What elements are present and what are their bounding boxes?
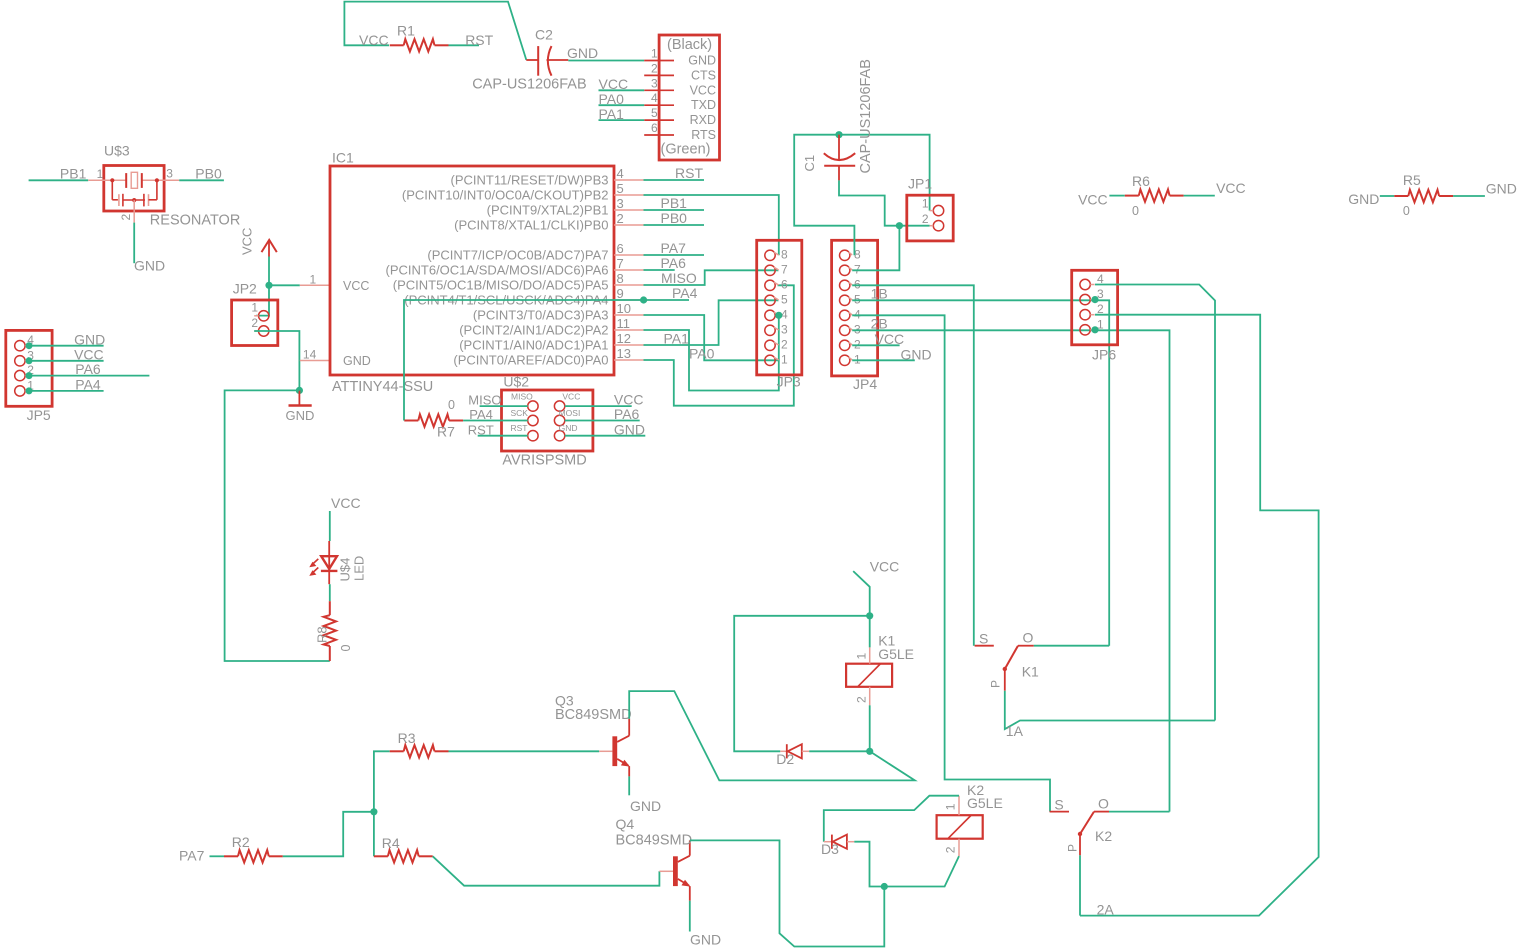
svg-text:2: 2 [854, 337, 861, 351]
label PA4 net (JP5) [75, 377, 101, 393]
label RST net [465, 32, 493, 48]
resistor R3 [390, 745, 449, 757]
internal pin label MISO U$2 [511, 392, 533, 402]
svg-text:GND: GND [567, 45, 598, 61]
svg-text:1: 1 [310, 273, 317, 287]
wire PA6 net stub [644, 269, 675, 271]
label GND net (resonator) [134, 258, 165, 274]
label JP5 [27, 407, 51, 423]
pin circle right 3 U$2 [554, 431, 564, 441]
wire junction to IC1 pin 1 [269, 284, 300, 286]
svg-text:BC849SMD: BC849SMD [616, 832, 693, 848]
svg-text:R5: R5 [1403, 172, 1421, 188]
capacitor C2 [526, 46, 568, 76]
pin stub right 3 U$2 [565, 435, 569, 437]
wire GND net stub (JP4 pin1) [852, 359, 915, 361]
svg-text:JP1: JP1 [908, 176, 932, 192]
pin number 2 JP2 [251, 316, 258, 330]
pin stub 2 JP4 [849, 342, 853, 345]
label VCC (left of R6) [1078, 191, 1108, 207]
svg-text:VCC: VCC [359, 32, 389, 48]
pin 4 of IC1 [614, 179, 644, 181]
pin number 3 IC1 [617, 196, 624, 211]
svg-text:2A: 2A [1097, 902, 1115, 918]
pin stub 2 JP3 [774, 342, 779, 345]
svg-text:RXD: RXD [690, 113, 716, 127]
pin 14 of IC1 [300, 360, 330, 362]
switch K1 S terminal [975, 645, 994, 647]
svg-text:R8: R8 [315, 626, 330, 643]
svg-text:2: 2 [922, 212, 929, 226]
pin 1 line of U$3 [88, 179, 126, 181]
label 1B net [871, 285, 888, 301]
pin number 1 JP4 [854, 352, 861, 366]
junction VCC/JP2/IC1 pin1 [265, 282, 272, 289]
label K2 (coil) [967, 782, 984, 798]
pin 9 of IC1 [614, 299, 644, 301]
pin number 7 JP4 [854, 262, 861, 276]
pin number 1 JP5 [27, 378, 34, 392]
wire K1 O to JP6 pin3 net [1034, 645, 1109, 647]
pin number 1 JP2 [251, 300, 258, 314]
wire IC1 pin5 to JP3 pin8 [644, 195, 779, 255]
internal pin label SCK U$2 [511, 408, 529, 418]
label PB1 net [60, 165, 87, 181]
junction JP5 pin2 [26, 372, 33, 379]
resonator U$3 outline [104, 166, 164, 212]
wire Q4 collector to D3/K2 junction [690, 840, 885, 946]
label GND (right of R5) [1486, 180, 1517, 196]
pin number 5 X1 [651, 106, 658, 120]
resistor R1 [390, 39, 449, 51]
wire PA7 net stub [644, 254, 705, 256]
pin stub left 2 U$2 [524, 420, 528, 422]
svg-text:RST: RST [511, 423, 528, 433]
pin number 11 IC1 [617, 316, 631, 331]
label S (K2) [1054, 797, 1063, 813]
pin circle 4 JP4 [840, 310, 850, 320]
svg-text:1: 1 [855, 653, 869, 660]
junction R2/R3/R4 [370, 808, 377, 815]
svg-text:VCC: VCC [690, 83, 716, 97]
pin stub 3 JP3 [774, 327, 779, 330]
wire JP4 pin7 to C1 junction [852, 226, 899, 271]
power symbol VCC arrow [262, 240, 277, 257]
pin name VCC X1 [690, 83, 716, 97]
pin number 1 K1 [855, 653, 869, 660]
label PA6 net (IC1) [661, 255, 687, 271]
svg-text:GND: GND [286, 408, 315, 423]
wire VCC right of R6 [1184, 195, 1215, 197]
label D2 [776, 751, 794, 767]
pin stub 6 JP4 [849, 282, 853, 285]
connector JP2 outline [232, 300, 278, 346]
label BC849SMD (Q3) [555, 707, 632, 723]
pin 5 of X1 [644, 119, 674, 121]
wire PA7 to R2 [210, 855, 225, 857]
svg-text:0: 0 [339, 645, 353, 652]
svg-text:K2: K2 [1095, 828, 1112, 844]
junction VCC/K1 [866, 612, 873, 619]
switch K1 P terminal [1004, 669, 1006, 691]
label CAP-US1206FAB (C1) [858, 59, 874, 173]
pin stub 3 JP6 [1090, 299, 1094, 301]
pin stub left 1 U$2 [524, 405, 528, 407]
svg-text:8: 8 [617, 271, 624, 286]
svg-text:3: 3 [166, 167, 173, 181]
pin circle 7 JP3 [765, 265, 775, 275]
wire PA4/R7 from IC1 pin9 [404, 300, 644, 421]
wire JP2 pin2 to GND junction [254, 331, 299, 390]
pin number 2 JP3 [781, 337, 788, 351]
wire VCC net stub (JP4 pin2) [852, 344, 899, 346]
value 0 (R5) [1403, 204, 1410, 218]
pin number 10 IC1 [617, 301, 631, 316]
wire GND right of R5 [1453, 195, 1485, 197]
resistor R6 [1125, 189, 1184, 201]
svg-text:GND: GND [688, 54, 716, 68]
pin circle 3 JP4 [840, 325, 850, 335]
label ATTINY44-SSU [332, 379, 433, 395]
pin name (PCINT1/AIN0/ADC1)PA1 [459, 338, 608, 353]
internal pin label MOSI U$2 [559, 408, 581, 418]
label RST (U$2) [468, 422, 494, 437]
junction C1 top [835, 131, 842, 138]
junction JP3 pin4 [775, 312, 782, 319]
wire VCC net from R1 to C2 (top loop) [344, 2, 526, 60]
wire MISO from IC1 pin8 to JP3 pin7 [644, 270, 779, 285]
svg-text:PB0: PB0 [195, 165, 222, 181]
wire VCC from U$2 [565, 405, 632, 407]
wire LED to R8 [329, 584, 331, 601]
svg-text:R2: R2 [232, 834, 250, 850]
svg-text:(PCINT9/XTAL2)PB1: (PCINT9/XTAL2)PB1 [487, 203, 609, 218]
label U$2 [503, 374, 529, 390]
pin name GND X1 [688, 54, 716, 68]
pin circle 5 JP3 [765, 295, 775, 305]
connector JP5 outline [6, 330, 52, 406]
crystal plates U$3 [126, 172, 142, 188]
pin circle 8 JP4 [840, 250, 850, 260]
svg-text:VCC: VCC [1216, 180, 1246, 196]
pin number 6 JP4 [854, 277, 861, 291]
wire PB0 net stub [644, 224, 705, 226]
svg-text:JP5: JP5 [27, 407, 51, 423]
pin stub 1 JP6 [1090, 329, 1094, 331]
label VCC net (JP5) [74, 346, 104, 362]
wire PB1 to resonator pin1 [29, 179, 89, 181]
svg-text:VCC: VCC [562, 392, 580, 402]
label PA1 net (IC1) [664, 331, 690, 347]
label JP6 [1092, 347, 1116, 363]
junction IC1 pin9 [640, 296, 647, 303]
junction C1 bottom / JP4 pin7 [896, 222, 903, 229]
label VCC (U$2) [614, 392, 644, 408]
svg-text:1: 1 [781, 352, 788, 366]
label GND net (JP5) [74, 331, 105, 347]
pin 1 of K1 [869, 647, 871, 663]
label VCC (LED) [331, 495, 361, 511]
svg-text:VCC: VCC [331, 495, 361, 511]
label Q3 [555, 693, 574, 709]
transistor Q4 [659, 840, 690, 900]
wire PA6 from JP5 pin2 [29, 375, 149, 377]
svg-text:GND: GND [134, 258, 165, 274]
label GND net (C2 to X1) [567, 45, 598, 61]
pin 5 of IC1 [614, 194, 644, 196]
wire VCC to K1 coil [853, 571, 870, 616]
pin stub 4 JP5 [25, 345, 29, 347]
label JP2 [233, 281, 257, 297]
label AVRISPSMD [502, 453, 586, 469]
relay coil K2 [937, 815, 983, 839]
svg-text:CAP-US1206FAB: CAP-US1206FAB [858, 59, 874, 173]
label PA6 (U$2) [614, 406, 640, 422]
svg-text:(PCINT11/RESET/DW)PB3: (PCINT11/RESET/DW)PB3 [451, 173, 609, 188]
pin number 1 JP3 [781, 352, 788, 366]
svg-text:2: 2 [617, 211, 624, 226]
svg-text:2: 2 [251, 316, 258, 330]
junction JP5 pin4 [26, 342, 33, 349]
wire VCC left of R6 [1109, 195, 1124, 197]
label VCC (arrow) [240, 228, 255, 255]
svg-text:C2: C2 [535, 27, 553, 43]
svg-text:(PCINT0/AREF/ADC0)PA0: (PCINT0/AREF/ADC0)PA0 [453, 353, 608, 368]
svg-text:SCK: SCK [511, 408, 529, 418]
label G5LE (K2) [967, 795, 1003, 811]
svg-text:5: 5 [854, 292, 861, 306]
svg-text:4: 4 [651, 91, 658, 105]
svg-text:5: 5 [651, 106, 658, 120]
pin circle 1 JP6 [1080, 325, 1090, 335]
connector X1 (FTDI header) outline [659, 35, 719, 160]
label GND (Q3) [630, 798, 661, 814]
svg-text:O: O [1098, 796, 1109, 812]
label PB1 net (IC1) [661, 195, 688, 211]
node pin3 junction U$3 [155, 178, 159, 182]
label Q4 [616, 816, 635, 832]
pin stub 1 JP1 [930, 210, 934, 212]
svg-text:PA7: PA7 [661, 240, 687, 256]
pin circle 6 JP3 [765, 280, 775, 290]
wire K2 P to 2A [1079, 855, 1081, 915]
svg-text:RST: RST [675, 165, 703, 181]
pin number 9 IC1 [617, 286, 624, 301]
wire C1 top net to JP1 pin1 and JP4 pin8 [794, 135, 929, 256]
pin number 1 X1 [651, 47, 658, 61]
pin number 6 X1 [651, 121, 658, 135]
pin number 2 X1 [651, 61, 658, 75]
svg-text:1: 1 [944, 803, 958, 810]
svg-text:1: 1 [922, 197, 929, 211]
pin circle 8 JP3 [765, 250, 775, 260]
ground symbol GND (IC1) [289, 390, 312, 405]
pin number 2 JP4 [854, 337, 861, 351]
wire PB0 from resonator pin3 [179, 179, 224, 181]
svg-text:P: P [988, 680, 1002, 688]
label PB0 net (IC1) [661, 210, 688, 226]
pin circle 1 JP2 [259, 311, 269, 321]
pin number 3 JP5 [27, 348, 34, 362]
pin stub right 2 U$2 [565, 420, 569, 422]
pin 11 of IC1 [614, 329, 644, 331]
svg-text:6: 6 [617, 241, 624, 256]
pin 3 line of U$3 [142, 179, 179, 181]
label R1 [397, 23, 415, 39]
svg-text:GND: GND [630, 798, 661, 814]
IC IC1 outline [330, 166, 614, 375]
svg-text:(PCINT8/XTAL1/CLKI)PB0: (PCINT8/XTAL1/CLKI)PB0 [454, 218, 608, 233]
wire junction to R4 [373, 812, 375, 857]
wire PB1 net stub [644, 209, 705, 211]
pin number 3 JP3 [781, 322, 788, 336]
label K1 [878, 633, 895, 649]
pin name (PCINT10/INT0/OC0A/CKOUT)PB2 [402, 188, 609, 203]
svg-text:PB1: PB1 [60, 165, 87, 181]
label VCC (right of R6) [1216, 180, 1246, 196]
svg-text:R4: R4 [382, 835, 400, 851]
pin 2 of K2 [958, 839, 960, 856]
svg-text:2B: 2B [871, 315, 888, 331]
wire JP6 pin2 to K2 2A [1080, 315, 1319, 916]
pin circle 4 JP3 [765, 310, 775, 320]
label P (K1) [988, 680, 1002, 688]
wire K1 P to 1A [1005, 691, 1215, 729]
label JP4 [853, 376, 877, 392]
pin circle 5 JP4 [840, 295, 850, 305]
pin stub 6 JP3 [774, 282, 779, 285]
svg-text:(Green): (Green) [661, 142, 711, 158]
wire IC1 pin13 (PA0) to JP3 pin6 [644, 285, 794, 405]
svg-text:0: 0 [448, 398, 455, 412]
svg-text:10: 10 [617, 301, 631, 316]
resistor R7 [404, 414, 463, 426]
pin number 2 K1 [855, 696, 869, 703]
label VCC net (JP4) [875, 331, 905, 347]
pin number 2 JP6 [1097, 302, 1104, 316]
svg-text:GND: GND [901, 346, 932, 362]
pin number 2 K2 [944, 846, 958, 853]
label BC849SMD (Q4) [616, 832, 693, 848]
label MISO (U$2) [468, 393, 501, 408]
svg-text:(PCINT1/AIN0/ADC1)PA1: (PCINT1/AIN0/ADC1)PA1 [459, 338, 608, 353]
label R2 [232, 834, 250, 850]
label R7 [437, 424, 455, 440]
svg-text:7: 7 [781, 262, 788, 276]
svg-text:JP4: JP4 [853, 376, 877, 392]
label S (K1) [979, 631, 988, 647]
svg-text:S: S [1054, 797, 1063, 813]
wire Q3 collector to K1/D2 junction [629, 691, 915, 780]
svg-text:6: 6 [781, 277, 788, 291]
svg-text:JP2: JP2 [233, 281, 257, 297]
label R3 [398, 730, 416, 746]
wire D3 to K2 pin2 junction [854, 842, 959, 887]
pin number 2 IC1 [617, 211, 624, 226]
wire IC1 pin11 to JP3 pin4 [644, 315, 779, 390]
connector JP6 outline [1072, 270, 1118, 345]
wire junction to D2 loop [734, 616, 870, 752]
pin number 4 IC1 [617, 166, 624, 181]
svg-text:D2: D2 [776, 751, 794, 767]
pin name (PCINT9/XTAL2)PB1 [487, 203, 609, 218]
wire RST net stub (IC1 pin4) [644, 179, 705, 181]
pin stub right 1 U$2 [565, 405, 569, 407]
pin 13 of IC1 [614, 359, 644, 361]
label U$3 [104, 143, 130, 159]
label C2 [535, 27, 553, 43]
wire PA4 net stub [644, 299, 689, 301]
svg-text:8: 8 [781, 247, 788, 261]
wire C1 bottom to JP1 pin2 [839, 180, 930, 225]
pin stub 8 JP4 [849, 252, 853, 255]
svg-text:S: S [979, 631, 988, 647]
pin stub 5 JP4 [849, 297, 853, 300]
connector JP1 outline [907, 195, 953, 241]
svg-text:AVRISPSMD: AVRISPSMD [502, 453, 586, 469]
switch K2 lever [1080, 812, 1094, 834]
wire IC1 pin10 to JP3 pin1 [644, 315, 779, 360]
pin circle 4 JP6 [1080, 279, 1090, 289]
pin stub 1 JP2 [254, 315, 258, 317]
switch K1 O terminal [1018, 645, 1034, 647]
svg-text:VCC: VCC [870, 559, 900, 575]
label D3 [821, 841, 839, 857]
svg-text:PA0: PA0 [689, 346, 715, 362]
svg-text:(Black): (Black) [667, 37, 712, 53]
label VCC (K1) [870, 559, 900, 575]
svg-text:MISO: MISO [661, 270, 697, 286]
label PA0 net (X1) [599, 91, 625, 107]
pin 3 of X1 [644, 89, 674, 91]
svg-text:2: 2 [781, 337, 788, 351]
pin stub 1 JP3 [774, 357, 779, 360]
wire PA0 to X1 pin4 [599, 104, 645, 106]
wire VCC arrow to junction [268, 257, 270, 286]
label PA7 net [179, 847, 205, 863]
svg-text:VCC: VCC [240, 228, 255, 255]
pin name CTS X1 [691, 68, 716, 82]
switch K2 O terminal [1094, 811, 1109, 813]
pin number 1 JP6 [1097, 317, 1104, 331]
pin name (PCINT4/T1/SCL/USCK/ADC4)PA4 [404, 293, 608, 308]
node pin1 junction U$3 [110, 178, 114, 182]
wire R3 to Q3 base [449, 750, 600, 752]
value 0 (R6) [1132, 204, 1139, 218]
wire PA1 to X1 pin5 [599, 119, 645, 121]
wire GND from resonator pin2 [133, 223, 135, 264]
svg-text:PA6: PA6 [614, 406, 640, 422]
svg-text:PA4: PA4 [469, 407, 493, 422]
svg-text:PA1: PA1 [599, 106, 625, 122]
pin circle 6 JP4 [840, 280, 850, 290]
svg-text:PB0: PB0 [661, 210, 688, 226]
wire JP4 pin3 (2B) to JP6 pin1 / K2 O [852, 330, 1169, 811]
wire junction to JP2 pin1 [256, 285, 269, 315]
pin 2 of X1 [644, 74, 674, 76]
wire junction to R3 [374, 751, 390, 812]
svg-text:6: 6 [651, 121, 658, 135]
pin name RTS X1 [691, 128, 716, 142]
pin name (PCINT2/AIN1/ADC2)PA2 [459, 323, 608, 338]
pin 2 of K1 [869, 687, 871, 706]
svg-text:1A: 1A [1006, 723, 1024, 739]
pin number 1 K2 [944, 803, 958, 810]
label JP3 [777, 374, 801, 390]
pin stub 2 JP6 [1090, 314, 1094, 316]
internal pin label VCC U$2 [562, 392, 580, 402]
label GND (left of R5) [1348, 191, 1379, 207]
